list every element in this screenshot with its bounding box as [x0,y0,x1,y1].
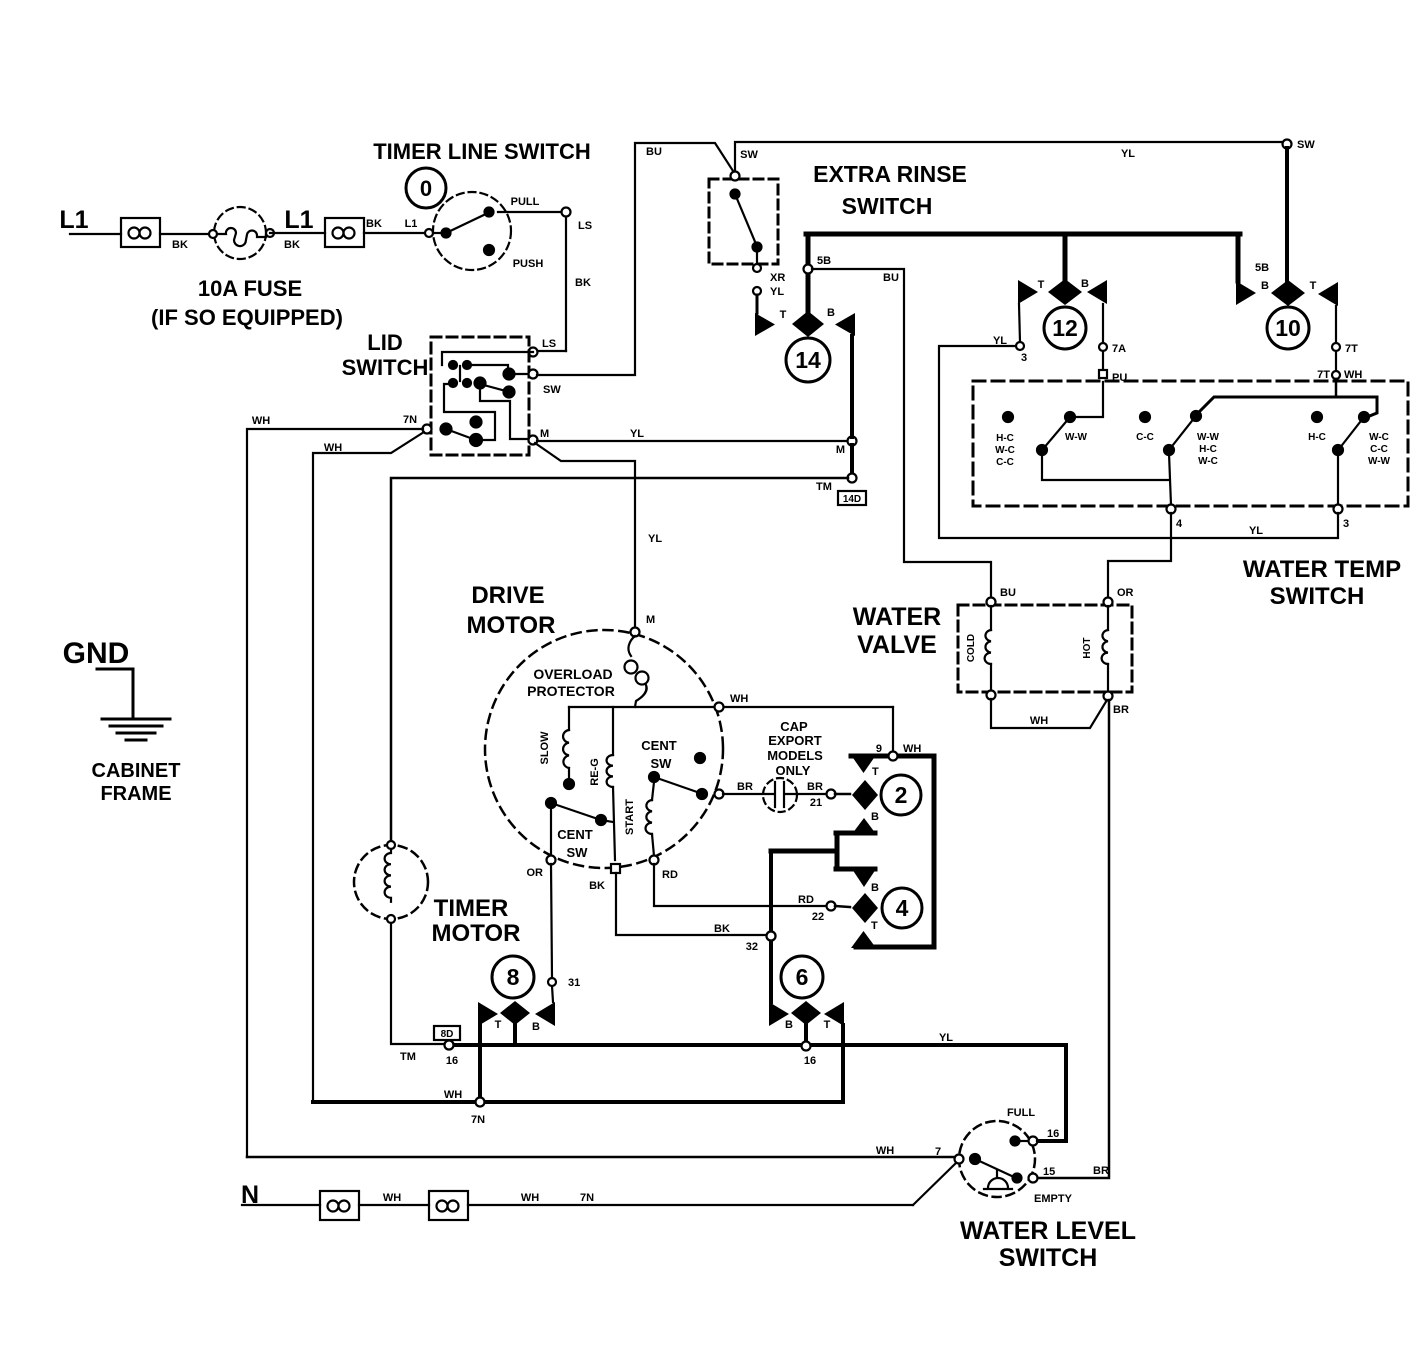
svg-text:GND: GND [63,637,130,670]
svg-text:10A FUSE: 10A FUSE [198,276,302,301]
circled 2 [881,775,921,815]
WTS switch 3: contact, arm, pivot [1333,412,1369,455]
node RD [650,856,678,882]
thick 5B corner drop to connector 10 [1236,234,1241,281]
svg-text:LS: LS [542,338,556,350]
svg-text:BK: BK [284,239,300,251]
svg-text:BU: BU [646,146,662,158]
svg-text:B: B [827,307,835,319]
svg-text:WH: WH [1344,369,1362,381]
wire BK down and right to node 32 [616,873,766,935]
wire SW down to connector 10 (medium) [1285,148,1289,282]
svg-text:YL: YL [630,428,644,440]
wire BK fuse to connector [270,233,325,251]
title TIMER MOTOR [432,895,521,947]
wire YL node down to connector 14 [756,295,759,313]
thick 5B bus horizontal [806,232,1240,237]
wire WH jog under water valve [991,699,1107,728]
connector (inline plug) on N [320,1191,359,1220]
WTS labels W-W H-C W-C [1197,432,1220,467]
thick wire node32 down to connector 6 [769,851,773,1002]
svg-text:SW: SW [651,756,673,771]
svg-text:9: 9 [876,743,882,755]
svg-text:TIMER LINE SWITCH: TIMER LINE SWITCH [373,139,591,164]
title WATER TEMP SWITCH [1243,556,1401,610]
svg-text:5B: 5B [1255,262,1269,274]
svg-text:CABINET: CABINET [92,760,181,782]
connector 10 diamond [1271,280,1305,306]
wire RD down and right to node 22 [654,864,827,906]
node 32 [746,932,776,954]
circled 6 [781,956,823,998]
GND label [63,637,130,670]
svg-text:YL: YL [770,286,784,298]
svg-text:SW: SW [740,149,758,161]
wire BU from 5B node to water valve [812,269,991,598]
WTS wire PU down to W-W contact [1072,382,1103,417]
wire top BU to extra rinse switch [637,143,735,174]
node 16 ring redraw [445,1041,454,1050]
node 9 WH [876,743,922,761]
svg-text:8D: 8D [441,1029,454,1040]
svg-text:B: B [1261,280,1269,292]
WTS open contact dot C-C [1136,412,1154,443]
timer motor top node [387,841,395,849]
pressure dome [984,1170,1012,1189]
wire from conn12 T down to node 3 [993,304,1027,364]
connector 2 top triangle (T) [851,755,879,778]
svg-text:RE-G: RE-G [589,758,601,786]
title TIMER LINE SWITCH [373,139,591,164]
connector 14 diamond [792,311,824,337]
connector 14 B label and right triangle [827,307,855,336]
svg-text:FULL: FULL [1007,1107,1035,1119]
connector 14 left triangle (T) [755,309,787,336]
wire BU from lid switch SW up to top [537,143,662,375]
thick TM bus line [449,1032,1066,1141]
svg-text:7A: 7A [1112,343,1126,355]
svg-text:WH: WH [252,415,270,427]
wire WH on N line [359,1192,429,1205]
svg-text:T: T [872,766,879,778]
svg-text:SWITCH: SWITCH [1270,583,1365,610]
WTS wire pivot3 down to node 3 [1334,453,1350,530]
svg-text:PUSH: PUSH [513,258,544,270]
svg-text:WH: WH [383,1192,401,1204]
svg-text:BK: BK [366,218,382,230]
svg-text:BU: BU [883,272,899,284]
wire WH down to node 9 [892,707,894,752]
svg-text:W-C: W-C [1369,432,1389,443]
svg-text:SWITCH: SWITCH [999,1244,1098,1272]
circled 14 [786,338,830,382]
svg-text:BK: BK [714,923,730,935]
circled 4 [882,888,922,928]
svg-text:XR: XR [770,272,785,284]
svg-text:TM: TM [816,481,832,493]
connector 6 T label and right triangle [824,1002,844,1031]
node 16 (TM line left) [400,1041,458,1068]
wire YL from lid switch M to node M right [537,428,848,441]
svg-text:OR: OR [1117,587,1134,599]
wire BR long run down to water level switch [1037,700,1109,1178]
drive motor (dashed circle) [485,630,723,868]
node M (right, on connector 14 drop) [836,437,857,457]
svg-text:L1: L1 [284,206,313,234]
svg-text:SLOW: SLOW [539,731,551,765]
svg-text:CENT: CENT [557,827,592,842]
svg-text:7N: 7N [580,1192,594,1204]
connector 6 diamond [791,1001,821,1042]
svg-text:6: 6 [796,964,809,990]
thick WH 7N bus line [313,1089,843,1102]
node TM [816,474,856,494]
node hot bottom (BR) [1104,692,1129,717]
timer motor bottom node [387,915,395,923]
svg-text:SWITCH: SWITCH [342,355,429,380]
svg-text:WH: WH [903,743,921,755]
node L1 text [59,206,88,234]
node SW of lid switch [529,370,562,397]
svg-text:ONLY: ONLY [776,763,811,778]
timer motor winding [385,849,391,902]
svg-text:22: 22 [812,911,824,923]
connector 8 left triangle (T) with drop to 7N [478,1002,502,1100]
connector 4 diamond [852,893,878,923]
CENT SW upper: pivot and arm [641,738,707,799]
timer motor (dashed circle) [354,845,428,919]
svg-text:YL: YL [1121,148,1135,160]
svg-text:WH: WH [876,1145,894,1157]
node BU at water valve [987,587,1016,607]
connector 8 B label and right triangle [532,1002,555,1033]
title DRIVE MOTOR [467,582,556,639]
label PULL / PUSH [511,196,544,270]
node 21 [827,790,836,799]
svg-text:YL: YL [1249,525,1263,537]
water temp switch (dashed box) [973,381,1408,506]
wire PULL to LS [498,208,592,233]
svg-text:W-W: W-W [1368,456,1391,467]
svg-text:31: 31 [568,977,580,989]
svg-text:SW: SW [1297,139,1315,151]
circled 0 (timer cam) [406,168,446,208]
svg-text:10: 10 [1275,315,1301,341]
HOT solenoid coil [1082,606,1108,691]
svg-text:16: 16 [1047,1128,1059,1140]
svg-text:PULL: PULL [511,196,540,208]
START winding [624,782,654,856]
svg-text:T: T [495,1019,502,1031]
connector 4 top triangle [852,869,879,894]
WTS switch 2: pivot, arm, contact [1164,411,1201,455]
WTS wire pivot1 to pivot2 [1042,453,1169,480]
node 7 [955,1155,964,1164]
svg-text:BR: BR [1113,704,1129,716]
svg-text:WH: WH [730,693,748,705]
label 10A FUSE [151,276,343,330]
svg-text:7: 7 [935,1146,941,1158]
svg-text:HOT: HOT [1082,637,1093,658]
node OR at water valve [1104,587,1134,607]
svg-text:7T: 7T [1317,369,1330,381]
thick frame of connectors 2/4 [851,756,934,947]
svg-text:5B: 5B [817,255,831,267]
svg-text:WATER: WATER [853,603,941,631]
connector 8 diamond [500,1001,530,1043]
svg-text:C-C: C-C [1136,432,1154,443]
svg-text:7T: 7T [1345,343,1358,355]
svg-text:LS: LS [578,220,592,232]
node 22 [798,894,835,923]
svg-text:BR: BR [737,781,753,793]
svg-text:H-C: H-C [996,433,1014,444]
WTS open contact dot 1 [1003,412,1013,422]
wire BK to timer line switch, node L1 [364,218,444,237]
svg-text:H-C: H-C [1199,444,1217,455]
svg-text:L1: L1 [59,206,88,234]
svg-text:WATER LEVEL: WATER LEVEL [960,1217,1136,1245]
node 5B on riser [804,255,832,274]
svg-text:EXPORT: EXPORT [768,733,822,748]
thick wire conn6 T down to WH line [841,1025,845,1100]
svg-text:W-C: W-C [1198,456,1218,467]
label CAP EXPORT MODELS ONLY [767,719,823,778]
wire YL from lid switch M down to drive motor [535,443,662,628]
svg-text:M: M [540,428,549,440]
circled 8 [492,956,534,998]
svg-text:FRAME: FRAME [100,783,171,805]
svg-text:M: M [646,614,655,626]
svg-text:YL: YL [939,1032,953,1044]
svg-text:W-W: W-W [1197,432,1220,443]
svg-text:RD: RD [798,894,814,906]
node YL [753,286,784,298]
8D box label [434,1026,460,1040]
svg-text:EMPTY: EMPTY [1034,1193,1073,1205]
FULL contact and node 16 [1007,1107,1066,1146]
wire conn10 T down to node 7T [1332,306,1358,355]
node BR after cent sw [715,790,724,799]
svg-text:32: 32 [746,941,758,953]
svg-text:RD: RD [662,869,678,881]
svg-text:BU: BU [1000,587,1016,599]
svg-text:T: T [1038,279,1045,291]
svg-text:BK: BK [172,239,188,251]
extra rinse switch contacts [731,149,762,264]
node 16 under connector 6 [802,1042,817,1068]
connector (inline plug) second [325,218,364,247]
svg-text:CENT: CENT [641,738,676,753]
svg-text:16: 16 [446,1055,458,1067]
connector 12 left triangle (T) [1018,279,1045,304]
wire timer motor down to node 16 [391,923,445,1044]
svg-text:VALVE: VALVE [857,631,937,659]
fuse F1 10A (dashed circle) [209,207,274,259]
svg-text:W-C: W-C [995,445,1015,456]
svg-text:T: T [871,920,878,932]
svg-text:WH: WH [521,1192,539,1204]
svg-text:2: 2 [895,782,908,808]
wire L1 feed [70,233,121,235]
svg-text:L1: L1 [405,218,418,230]
connector 4 bottom triangle [851,931,876,948]
thick link between connectors 2 and 4 [771,833,875,869]
svg-text:12: 12 [1052,315,1078,341]
WTS labels W-C C-C W-W [1368,432,1391,467]
node WH [715,693,749,712]
connector 10 T label and right triangle [1310,280,1338,306]
title WATER LEVEL SWITCH [960,1217,1136,1272]
node M of lid switch [529,428,550,445]
svg-text:TM: TM [400,1051,416,1063]
water level switch pivot and arm to EMPTY [970,1154,1022,1183]
node XR [753,264,785,284]
wire WH from 7N diagonal [313,432,424,1102]
svg-text:4: 4 [896,895,909,921]
svg-text:M: M [836,444,845,456]
timer line switch S0 (dashed circle) [433,192,511,270]
connector 2 bottom triangle [852,818,876,834]
svg-text:OVERLOAD: OVERLOAD [533,666,612,682]
water level switch (dashed circle) [959,1121,1035,1197]
wire WH from 7N left [247,415,423,1157]
CENT SW lower: pivot and arm [546,798,613,860]
svg-text:BK: BK [575,277,591,289]
connector (inline plug) on L1 [121,218,160,247]
svg-text:B: B [1081,278,1089,290]
node SW top right [1283,139,1316,151]
svg-text:WH: WH [324,442,342,454]
svg-text:B: B [871,811,879,823]
svg-text:B: B [871,882,879,894]
svg-text:16: 16 [804,1055,816,1067]
svg-text:14: 14 [795,347,821,373]
svg-text:BK: BK [589,880,605,892]
node N text [241,1181,259,1209]
svg-text:8: 8 [507,964,520,990]
svg-text:MOTOR: MOTOR [432,920,521,947]
svg-text:7N: 7N [471,1114,485,1126]
circled 12 [1044,307,1086,349]
svg-text:B: B [532,1021,540,1033]
node L1 (second) text [284,206,313,234]
svg-text:C-C: C-C [1370,444,1388,455]
svg-text:WH: WH [1030,715,1048,727]
connector 12 B label and right triangle [1081,278,1107,304]
svg-text:SWITCH: SWITCH [842,193,933,219]
svg-text:T: T [780,309,787,321]
title EXTRA RINSE SWITCH [813,161,967,219]
svg-text:T: T [824,1019,831,1031]
wire node22 to diamond 4 [835,906,850,907]
svg-text:MODELS: MODELS [767,748,823,763]
EMPTY node 15 [1029,1165,1109,1205]
WTS labels H-C W-C C-C [995,432,1087,468]
svg-text:OR: OR [527,867,544,879]
svg-text:SW: SW [543,384,561,396]
connector 2 diamond [852,780,878,810]
connector 12 diamond [1048,279,1082,305]
water valve (dashed box) [958,605,1132,692]
svg-text:C-C: C-C [996,457,1014,468]
WTS switch 1: contact W-W, arm, pivot [1037,412,1075,455]
svg-text:W-W: W-W [1065,432,1088,443]
square node BK on REG line [589,864,620,892]
svg-text:21: 21 [810,797,822,809]
COLD solenoid coil [966,606,991,691]
long WH wire to water level switch [247,1145,955,1158]
thick 5B bus riser at connector 14 [806,234,811,312]
svg-text:4: 4 [1176,518,1183,530]
ground symbol (cabinet frame) [97,669,170,740]
svg-text:CAP: CAP [780,719,808,734]
svg-text:14D: 14D [843,494,861,505]
svg-text:T: T [1310,280,1317,292]
WTS open contact dot H-C [1308,412,1326,443]
svg-text:(IF SO EQUIPPED): (IF SO EQUIPPED) [151,305,343,330]
node 7N of lid switch [403,414,432,434]
wire node21 to diamond 2 [835,793,850,796]
wire top of timer-motor rectangle (TM to timer motor) [391,478,848,841]
title WATER VALVE [853,603,941,659]
connector 4 T label [871,920,878,932]
svg-text:BR: BR [1093,1165,1109,1177]
svg-text:DRIVE: DRIVE [471,582,544,609]
svg-text:7N: 7N [403,414,417,426]
lid switch (dashed box) [431,337,529,455]
wire thick from connector 14 B down through M to TM [850,336,854,474]
wire from conn12 B down to node 7A [1099,304,1126,355]
wire BK LS down to lid switch [566,217,591,351]
node cold bottom [987,691,996,700]
svg-text:WATER TEMP: WATER TEMP [1243,556,1401,583]
WTS wire 7T/WH down into box joining link [1335,379,1338,396]
wire OR node4 to water valve [1108,513,1171,598]
connector (inline plug) second on N [429,1191,468,1220]
svg-text:TIMER: TIMER [434,895,509,922]
svg-text:BR: BR [807,781,823,793]
REG winding [589,707,615,860]
extra rinse switch (dashed box) [709,179,778,264]
label CABINET FRAME [92,760,181,805]
WTS link contact2 up over to contact3 [1196,397,1377,417]
svg-text:PROTECTOR: PROTECTOR [527,683,615,699]
wire WH 7N on N line to water level switch [468,1162,957,1205]
node 32 ring redraw [767,932,776,941]
svg-text:YL: YL [648,533,662,545]
node M of drive motor [631,614,656,637]
circled 10 [1267,307,1309,349]
svg-text:WH: WH [444,1089,462,1101]
overload protector [527,636,648,707]
svg-text:EXTRA RINSE: EXTRA RINSE [813,161,967,187]
wire from conn8 B up to node 31 [548,977,580,1002]
svg-text:H-C: H-C [1308,432,1326,443]
SLOW winding [539,707,574,789]
wire BK to fuse [160,234,213,251]
title LID SWITCH [342,330,429,380]
N wire [242,1204,320,1206]
svg-text:0: 0 [420,176,432,201]
wire 7A to PU square node [1099,351,1127,384]
WTS wire pivot2 down to node 4 [1167,453,1183,530]
14D box label [838,491,866,505]
svg-text:SW: SW [567,845,589,860]
connector 10 left triangle (B) [1236,262,1269,305]
svg-text:15: 15 [1043,1166,1055,1178]
thick 5B drop to connector 12 [1063,234,1068,281]
